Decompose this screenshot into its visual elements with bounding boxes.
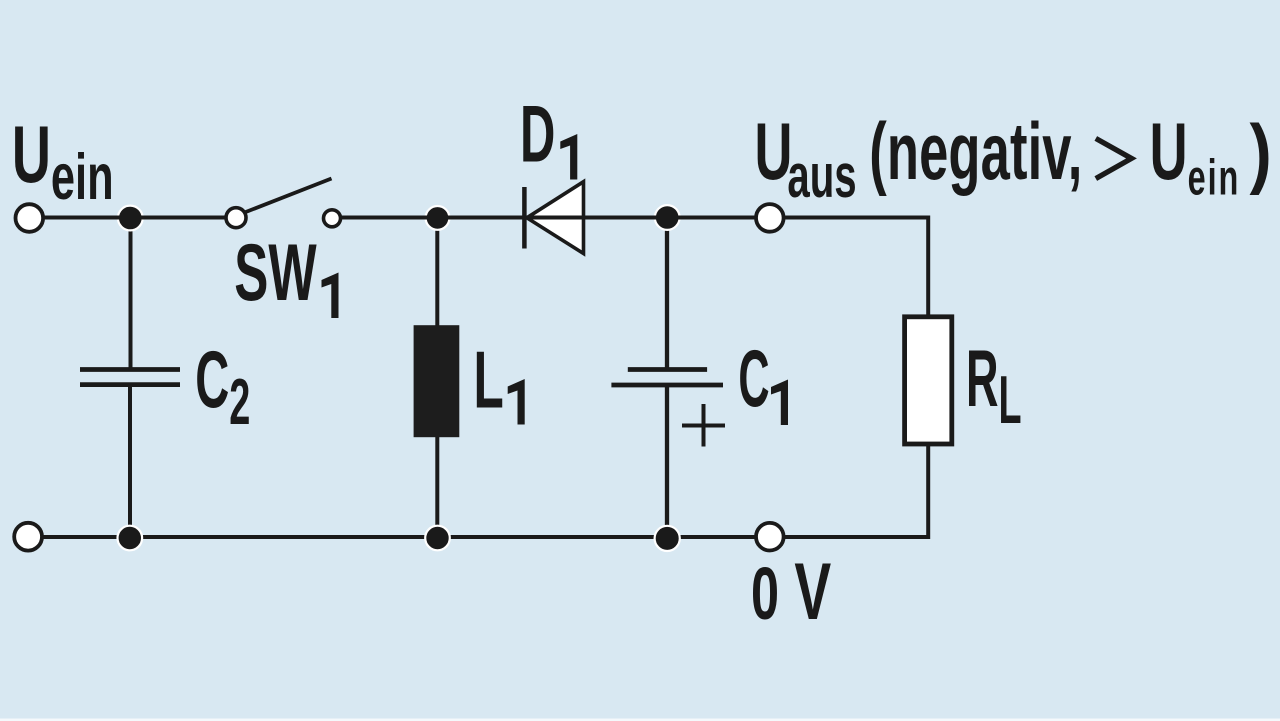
switch SW1 throw circle: [324, 210, 341, 227]
terminal Uein input: [15, 204, 43, 232]
label C2: [195, 335, 250, 439]
wire top rail left segment: [29, 216, 236, 220]
diode D1 cathode bar: [522, 187, 527, 249]
wire top rail right segment: [332, 216, 928, 220]
wire C2 branch upper: [129, 216, 133, 370]
label L1: [474, 335, 504, 425]
svg-text:0 V: 0 V: [751, 545, 831, 636]
label 0V: [751, 545, 831, 636]
subscript 1 of C1: [771, 380, 788, 426]
label D1: [520, 89, 555, 180]
junction bottom C1 node: [655, 526, 680, 551]
terminal bottom left: [14, 523, 42, 551]
label C1: [738, 332, 769, 423]
junction top C2 node: [118, 206, 143, 231]
terminal 0V: [756, 523, 784, 551]
label Uein: [12, 109, 114, 213]
svg-text:D: D: [520, 89, 555, 180]
capacitor C1 plus sign: [682, 404, 725, 447]
junction top L1 node: [426, 206, 450, 230]
bottom edge strip: [0, 719, 1280, 721]
label Uaus negativ: [754, 107, 1240, 212]
greater-than sign: [1096, 138, 1132, 178]
capacitor C1 bottom plate: [611, 383, 723, 388]
wire C1 branch upper: [665, 216, 669, 370]
svg-text:C: C: [738, 332, 769, 423]
svg-text:SW: SW: [234, 228, 316, 318]
terminal Uaus output: [756, 204, 784, 232]
switch SW1 blade: [245, 179, 332, 213]
capacitor C2 bottom plate: [80, 382, 180, 387]
svg-text:): ): [1250, 109, 1272, 196]
wire L1 branch: [435, 216, 439, 540]
subscript 1 of D1: [560, 134, 577, 180]
switch SW1 pole circle: [226, 208, 246, 228]
resistor RL body: [905, 317, 952, 444]
diode D1 triangle: [527, 182, 584, 254]
junction bottom C2 node: [118, 526, 143, 551]
wire right branch vertical: [926, 216, 930, 540]
label RL: [966, 333, 1022, 438]
label closing paren: [1250, 109, 1272, 196]
svg-text:L: L: [474, 335, 504, 425]
subscript 1 of SW1: [322, 273, 339, 319]
wire C2 branch lower: [128, 384, 132, 539]
junction bottom L1 node: [425, 526, 450, 551]
capacitor C1 top plate: [628, 367, 707, 372]
label SW1: [234, 228, 316, 318]
inductor L1 body: [414, 325, 460, 437]
junction top C1 node: [655, 205, 680, 230]
wire C1 branch lower: [665, 385, 669, 539]
subscript 1 of L1: [508, 379, 525, 425]
wire bottom rail: [28, 535, 928, 539]
capacitor C2 top plate: [80, 367, 180, 372]
